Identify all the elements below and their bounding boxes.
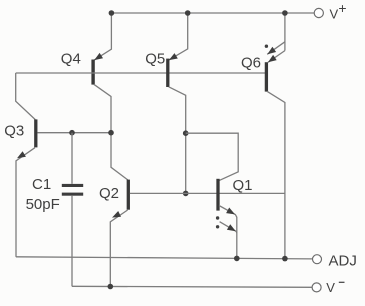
phantom emitter dots Q1 [216,216,219,219]
transistor Q6 (multi-emitter) [267,47,276,55]
wire Q3 collector to Q4 base [16,73,36,120]
junction dot Q1 emitter / ADJ [234,256,240,262]
svg-text:Q5: Q5 [145,51,165,68]
node ADJ rail [16,257,313,259]
wire Q2/Q1 base rail [130,192,285,194]
svg-text:Q2: Q2 [99,185,119,202]
wire Q4 collector [94,84,128,180]
node V- rail [72,286,312,287]
svg-text:V: V [326,280,335,295]
transistor Q1 (multi-emitter) [216,179,219,211]
junction dot Q3 base / Q4-Q2 collector line [108,130,114,136]
transistor Q4 [94,53,103,60]
svg-text:Q3: Q3 [4,122,24,139]
wire Q3 base [37,132,111,134]
arrow Q3 emitter [17,151,26,158]
wire Q1 collector link [186,133,239,181]
junction dot Q5 collector / Q1 base [183,191,189,197]
wire Q1 emitter 1 [219,206,237,259]
wire C1 to V- [71,196,73,286]
junction dot Q6 collector / ADJ [282,256,288,262]
svg-text:V: V [330,7,339,22]
junction dot V+ rail / Q4 emitter [109,10,115,16]
phantom emitter dot Q6 [265,45,268,48]
junction dot V+ rail / Q5 emitter [185,10,191,16]
terminal V- [312,283,321,292]
junction dot V+ rail / Q6 emitter [282,10,288,16]
junction dot Q5 collector / Q1 collector link [183,130,189,136]
wire Q4 emitter to V+ [94,13,112,60]
svg-text:+: + [338,0,346,16]
capacitor C1 [71,133,73,184]
junction dot Q2 emitter / V- [108,284,114,290]
transistor Q2 [127,180,130,210]
svg-text:Q1: Q1 [233,177,253,194]
wire Q1 emitter 2 [220,222,237,233]
svg-text:ADJ: ADJ [329,252,357,269]
terminal ADJ [313,255,322,264]
wire Q6 collector to ADJ [267,91,285,258]
junction dot Q3 base / C1 [69,130,75,136]
svg-text:50pF: 50pF [26,196,60,213]
wire Q3 emitter to ADJ [16,148,35,257]
transistor Q5 [169,53,178,60]
wire Q5 emitter to V+ [169,13,188,60]
svg-text:Q6: Q6 [241,55,261,72]
wire Q6 emitters to V+ [284,13,286,51]
svg-text:Q4: Q4 [61,51,81,68]
arrow Q2 emitter [112,211,121,218]
arrow Q1 emitter 1 [226,208,235,215]
node V+ rail [111,12,314,14]
arrow Q1 emitter 2 [227,224,236,231]
wire Q2 emitter to V- [110,210,127,287]
wire base rail Q4/Q5/Q6 [16,72,266,74]
svg-text:C1: C1 [32,176,51,193]
transistor Q3 [34,119,37,147]
wire Q5 collector [169,87,186,194]
terminal V+ [314,8,323,17]
